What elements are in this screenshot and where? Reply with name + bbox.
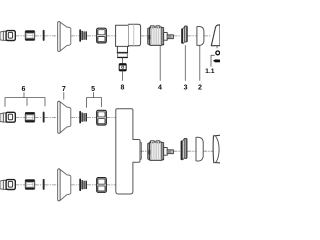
svg-text:8: 8 — [121, 83, 125, 91]
nut (group 6) bottom row — [25, 180, 34, 190]
union nut (group 5) middle row — [97, 110, 107, 125]
washer (group 6) bottom row — [43, 179, 45, 190]
leader 4 — [159, 45, 161, 80]
cartridge 4 bottom row — [148, 141, 174, 160]
union S-connector bottom row — [0, 180, 15, 190]
dome cap 2 top row — [197, 26, 204, 45]
seal set (group 5) bottom row — [79, 179, 87, 192]
escutcheon cone 7 middle row — [58, 101, 71, 133]
bracket 6 — [5, 93, 45, 107]
svg-text:7: 7 — [62, 85, 66, 93]
cartridge 4 top row — [148, 26, 174, 45]
axis centerline row1 — [16, 35, 212, 37]
washer (group 6) middle row — [43, 112, 45, 123]
nut (group 6) top row — [25, 31, 34, 41]
valve body top (shut-off) — [116, 24, 141, 57]
union nut (group 5) bottom row — [97, 178, 107, 193]
bracket 1.1 — [211, 55, 214, 66]
grooved ring 3 top row — [181, 26, 187, 44]
knob 1 bottom right (clipped) — [213, 135, 220, 163]
mixer body (tall) — [116, 109, 142, 194]
svg-text:2: 2 — [198, 83, 202, 91]
union S-connector top row — [0, 31, 15, 41]
nut (group 6) middle row — [25, 112, 34, 122]
svg-text:6: 6 — [22, 85, 26, 93]
tick below handle — [216, 46, 218, 48]
screw (1.1 group) — [213, 59, 220, 62]
axis centerline row3 (bottom inlet) — [16, 184, 116, 186]
leader to part 8 — [122, 58, 124, 63]
grooved ring 3 bottom row — [181, 138, 187, 160]
dome cap 2 bottom row — [196, 137, 203, 161]
axis centerline row2 (middle inlet) — [16, 117, 116, 119]
svg-text:3: 3 — [184, 83, 188, 91]
part 8 screen union — [119, 64, 126, 71]
svg-text:4: 4 — [158, 83, 162, 91]
escutcheon cone 7 top row — [58, 22, 71, 52]
svg-text:5: 5 — [91, 85, 95, 93]
seal set (group 5) top row — [79, 29, 87, 42]
bracket 5 — [87, 93, 102, 108]
leader 3 — [184, 46, 186, 81]
leader 8 — [122, 71, 124, 80]
seal set (group 5) middle row — [79, 111, 87, 124]
lever handle 1 top right (clipped) — [211, 25, 220, 46]
leader 7 — [63, 93, 65, 100]
escutcheon cone 7 bottom row — [58, 169, 71, 201]
union nut (group 5) top row — [97, 28, 107, 43]
screw cap (1.1 group) — [216, 51, 220, 55]
svg-text:1.1: 1.1 — [205, 68, 215, 75]
union S-connector middle row — [0, 112, 15, 122]
leader 2 — [199, 46, 201, 81]
axis centerline row2 right (cartridge axis) — [140, 150, 213, 152]
washer (group 6) top row — [43, 30, 45, 41]
